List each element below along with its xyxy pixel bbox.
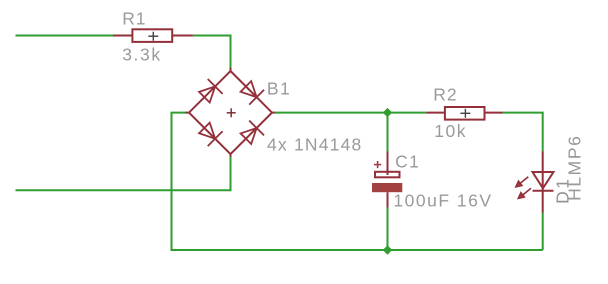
- LED arrow 1: [516, 177, 528, 187]
- wire R1 to bridge top corner: [193, 36, 231, 69]
- svg-text:3.3k: 3.3k: [122, 45, 161, 65]
- svg-text:C1: C1: [395, 152, 420, 172]
- wire LED cathode to bottom rail: [542, 213, 544, 251]
- junction top rail / C1: [383, 108, 392, 117]
- LED arrow 2: [518, 188, 531, 198]
- diode B1 bottom-right (bottom to right): [238, 121, 264, 147]
- svg-text:10k: 10k: [434, 121, 467, 141]
- junction bottom rail / C1: [383, 245, 392, 254]
- C1 bottom plate (filled): [372, 183, 402, 192]
- origin cross R1: [148, 32, 158, 41]
- LED D1: [533, 151, 554, 212]
- diode B1 top-left (left to top): [197, 79, 223, 105]
- bridge B1 pin stubs: [185, 68, 274, 157]
- capacitor C1 polarized: [375, 152, 400, 208]
- wire AC input top to R1: [16, 35, 114, 37]
- svg-text:R2: R2: [433, 85, 457, 105]
- resistor R1: [113, 29, 193, 42]
- bridge rectifier B1 diamond: [189, 71, 272, 154]
- diode B1 top-right (top to right): [238, 79, 264, 105]
- resistor R2: [426, 107, 502, 120]
- wire bridge left vertex to negative rail (bottom): [172, 113, 543, 250]
- wire C1 branch lower: [387, 208, 389, 251]
- origin cross B1: [227, 108, 236, 117]
- origin cross R2: [460, 109, 470, 118]
- diode B1 bottom-left (left to bottom): [197, 121, 223, 147]
- svg-text:4x 1N4148: 4x 1N4148: [267, 134, 362, 154]
- wire C1 branch upper: [387, 113, 389, 152]
- wire bridge right vertex to R2 (positive rail): [274, 112, 426, 114]
- wire R2 to LED branch corner: [503, 113, 543, 152]
- svg-text:B1: B1: [267, 78, 291, 98]
- svg-text:R1: R1: [122, 8, 146, 28]
- C1 plus sign: [374, 161, 381, 168]
- svg-text:100uF 16V: 100uF 16V: [393, 190, 492, 210]
- svg-text:HLMP6: HLMP6: [565, 135, 585, 201]
- wire bridge bottom vertex down to AC2 rail: [16, 156, 231, 190]
